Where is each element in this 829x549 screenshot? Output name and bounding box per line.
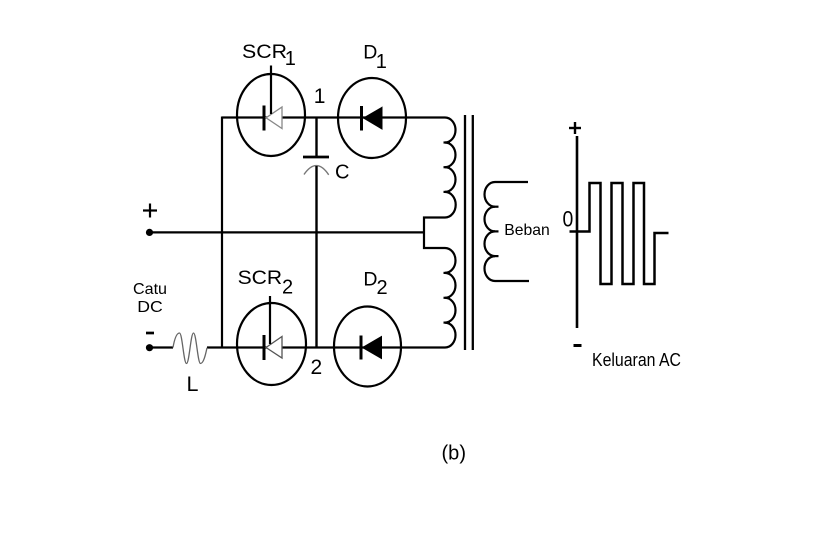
svg-text:1: 1 [376, 51, 387, 73]
transformer core line 2 [472, 115, 474, 350]
svg-text:Beban: Beban [504, 222, 550, 239]
SCR2 gate [269, 296, 271, 344]
inductor L [173, 333, 207, 364]
SCR1 circle [237, 74, 305, 156]
waveform minus symbol [574, 344, 582, 347]
diode D2 circle [334, 307, 401, 387]
capacitor C top plate [303, 156, 329, 159]
wire minus lead [152, 346, 173, 348]
D2 triangle [363, 337, 382, 359]
SCR1 cathode bar [263, 106, 266, 131]
terminal - dot [146, 344, 153, 351]
waveform axis [576, 136, 579, 328]
primary coil cusp curls [444, 143, 451, 323]
waveform square wave [570, 183, 669, 284]
wire bottom rail node2 [207, 346, 445, 348]
waveform plus symbol [569, 122, 581, 134]
transformer center tap [424, 218, 445, 249]
transformer primary winding bottom half [445, 248, 456, 348]
svg-text:2: 2 [377, 277, 388, 299]
D1 triangle [364, 107, 383, 129]
svg-text:2: 2 [282, 277, 293, 299]
plus symbol [143, 204, 157, 218]
capacitor C bottom lead [315, 166, 317, 348]
svg-text:Keluaran AC: Keluaran AC [592, 350, 681, 370]
svg-text:D: D [363, 269, 377, 291]
svg-text:SCR: SCR [238, 267, 283, 289]
capacitor C curved plate [304, 166, 329, 175]
wire left vertical branch [221, 117, 223, 349]
svg-text:C: C [335, 162, 349, 184]
svg-text:L: L [187, 372, 199, 396]
capacitor C top lead [315, 118, 317, 157]
svg-text:(b): (b) [442, 442, 467, 465]
svg-text:2: 2 [311, 356, 323, 379]
diode D1 circle [338, 78, 406, 158]
svg-text:1: 1 [314, 85, 326, 108]
minus symbol [146, 332, 154, 335]
secondary Beban winding [485, 182, 530, 281]
D2 cathode bar [360, 336, 363, 360]
terminal + dot [146, 229, 153, 236]
secondary coil cusp curls [492, 207, 499, 256]
SCR2 circle [237, 303, 306, 385]
wire plus supply rail [152, 231, 424, 233]
SCR1 gate [270, 66, 272, 115]
svg-text:0: 0 [563, 206, 574, 231]
SCR2 cathode bar [263, 335, 266, 360]
svg-text:Catu: Catu [133, 281, 167, 298]
svg-text:1: 1 [285, 48, 296, 70]
transformer primary winding top half [445, 118, 456, 218]
svg-text:DC: DC [137, 299, 163, 316]
SCR2 triangle [266, 337, 282, 359]
D1 cathode bar [360, 106, 363, 131]
svg-text:SCR: SCR [242, 41, 287, 63]
transformer core line 1 [464, 115, 466, 350]
SCR1 triangle [266, 107, 282, 129]
wire top rail node1 [222, 116, 445, 118]
